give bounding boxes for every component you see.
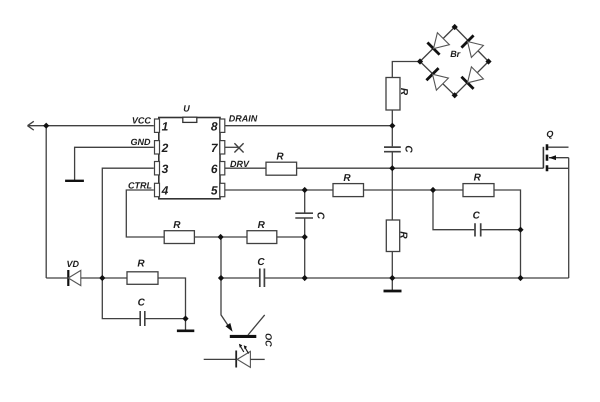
resistor R (VD row) xyxy=(127,272,158,285)
LED triangle xyxy=(237,351,250,367)
svg-text:DRAIN: DRAIN xyxy=(229,114,258,124)
bridge diode TR xyxy=(461,35,483,57)
diode VD xyxy=(68,270,81,286)
wire left C to ground node xyxy=(146,318,186,320)
node vd-102 xyxy=(99,275,105,281)
LED wire left xyxy=(204,358,236,360)
bridge edge TR xyxy=(455,27,489,62)
node row190-304 xyxy=(302,187,308,193)
svg-text:R: R xyxy=(137,259,145,270)
resistor R (row190 right) xyxy=(463,184,494,197)
svg-text:3: 3 xyxy=(162,162,169,176)
node row236-304 xyxy=(302,234,308,240)
node gnd3-185 xyxy=(182,316,188,322)
transistor Q gate bar xyxy=(542,147,544,169)
wire right C to vertical xyxy=(481,229,520,231)
node arrow-junction xyxy=(43,123,49,129)
svg-text:R: R xyxy=(276,151,284,162)
wire DRV left xyxy=(225,167,266,169)
node drain-392 xyxy=(389,123,395,129)
node bridge top xyxy=(452,24,458,30)
optocoupler base bar xyxy=(230,335,256,338)
IC pin stub 2 xyxy=(155,141,160,154)
IC pin stub 4 xyxy=(155,183,160,196)
svg-text:C: C xyxy=(402,145,413,153)
wire bottom bus right xyxy=(265,277,569,279)
wire pin5 xyxy=(225,189,333,191)
bridge diode BR xyxy=(461,67,483,89)
bridge rectifier Br diode TL xyxy=(427,33,449,55)
wire pin7 stub xyxy=(225,146,239,148)
resistor R (top vertical) xyxy=(386,78,400,111)
svg-text:R: R xyxy=(258,220,266,231)
wire VD to R xyxy=(81,277,127,279)
no-connect X pin7 xyxy=(234,143,243,152)
svg-text:Q: Q xyxy=(546,129,553,139)
IC U body xyxy=(159,118,220,199)
capacitor C right plates xyxy=(475,223,481,236)
wire mid cap branch bottom xyxy=(304,218,306,278)
svg-text:R: R xyxy=(474,173,482,184)
capacitor C left plates xyxy=(140,311,145,326)
svg-text:2: 2 xyxy=(161,141,169,155)
wire mosfet source vertical xyxy=(568,158,570,278)
resistor R (mid vertical) xyxy=(386,220,399,252)
input arrow xyxy=(28,121,34,130)
IC pin stub 3 xyxy=(155,162,160,175)
node row190-433 xyxy=(430,187,436,193)
node rc-520 xyxy=(517,227,523,233)
wire bridge left node xyxy=(392,62,420,78)
IC pin stub 5 xyxy=(220,183,225,196)
svg-text:5: 5 xyxy=(211,184,218,198)
wire mid cap branch top xyxy=(304,190,306,213)
wire DRAIN xyxy=(225,125,392,127)
IC pin stub 8 xyxy=(220,119,225,132)
optocoupler collector arrow xyxy=(226,323,233,332)
node bus-392 xyxy=(389,275,395,281)
wire cap to R mid xyxy=(391,152,393,220)
IC notch xyxy=(183,117,197,122)
resistor R (row190 left) xyxy=(333,184,364,197)
IC pin stub 1 xyxy=(155,119,160,132)
node bus-520 xyxy=(517,275,523,281)
svg-text:1: 1 xyxy=(162,119,169,133)
wire R to corner down xyxy=(158,278,186,319)
ground G2 xyxy=(384,290,402,293)
svg-text:C: C xyxy=(138,298,146,309)
ground G1 xyxy=(65,180,84,182)
bridge edge BR xyxy=(455,62,489,96)
node bus-304 xyxy=(302,275,308,281)
wire row236 right xyxy=(277,236,305,238)
node bus-221 xyxy=(218,275,224,281)
wire left C row xyxy=(102,278,139,319)
bridge edge BL xyxy=(420,62,455,96)
capacitor C series bus xyxy=(260,269,265,288)
wire left vertical xyxy=(45,126,47,278)
svg-text:R: R xyxy=(397,231,408,239)
wire GND pin2 xyxy=(75,147,154,180)
svg-text:C: C xyxy=(473,211,481,222)
svg-text:R: R xyxy=(173,220,181,231)
resistor R2 (row236) xyxy=(247,231,277,244)
wire right RC branch xyxy=(433,190,474,230)
node row236-221 xyxy=(218,234,224,240)
optocoupler emitter lead xyxy=(248,315,265,335)
wire R mid to bus xyxy=(391,252,393,279)
svg-text:OC: OC xyxy=(264,333,274,347)
node bridge right xyxy=(485,58,491,64)
IC pin stub 6 xyxy=(220,162,225,175)
wire DRV right to gate xyxy=(297,167,543,169)
LED light arrow 1 xyxy=(240,346,244,352)
svg-text:VD: VD xyxy=(66,259,79,269)
capacitor C top plates xyxy=(384,147,401,152)
wire opto collector vertical xyxy=(221,237,230,328)
transistor Q body arrow xyxy=(549,155,556,160)
transistor Q channel bars xyxy=(546,144,549,171)
wire bottom bus left xyxy=(221,277,259,279)
LED light arrow 2 xyxy=(245,348,249,354)
wire pin4 CTRL xyxy=(126,190,164,237)
wire R to drain node xyxy=(391,110,393,146)
resistor R (DRV) xyxy=(266,162,297,175)
node bridge bottom xyxy=(452,92,458,98)
svg-text:4: 4 xyxy=(161,184,169,198)
svg-text:U: U xyxy=(183,103,190,113)
svg-text:8: 8 xyxy=(211,119,218,133)
LED cathode bar xyxy=(235,351,237,368)
wire row190 mid xyxy=(364,189,464,191)
node drv-392 xyxy=(389,165,395,171)
wire pin3 xyxy=(102,168,154,278)
bridge diode BL xyxy=(426,68,448,90)
svg-text:C: C xyxy=(257,257,265,268)
svg-text:DRV: DRV xyxy=(230,159,250,169)
transistor Q drain lead xyxy=(548,146,569,148)
svg-text:VCC: VCC xyxy=(132,115,152,125)
node bridge left xyxy=(417,58,423,64)
IC pin stub 7 xyxy=(220,141,225,154)
capacitor C mid plates xyxy=(295,213,313,218)
wire VD row left xyxy=(46,277,67,279)
ground G2 stub xyxy=(391,278,393,290)
svg-text:Br: Br xyxy=(450,49,460,59)
ground G3 xyxy=(177,329,194,332)
wire row190 to corner down xyxy=(494,190,521,278)
svg-text:GND: GND xyxy=(131,137,152,147)
transistor Q source lead xyxy=(548,167,569,169)
wire VCC rail xyxy=(28,125,154,127)
svg-text:C: C xyxy=(315,212,326,220)
transistor Q body lead xyxy=(549,157,569,159)
LED wire right xyxy=(250,358,264,360)
bridge edge TL xyxy=(420,27,455,62)
wire row236 R1-R2 xyxy=(195,236,248,238)
svg-text:6: 6 xyxy=(211,162,218,176)
svg-text:R: R xyxy=(398,88,409,96)
ground G3 stub xyxy=(185,319,187,330)
resistor R1 (row236) xyxy=(164,231,194,244)
svg-text:R: R xyxy=(343,173,351,184)
svg-text:CTRL: CTRL xyxy=(128,180,152,190)
